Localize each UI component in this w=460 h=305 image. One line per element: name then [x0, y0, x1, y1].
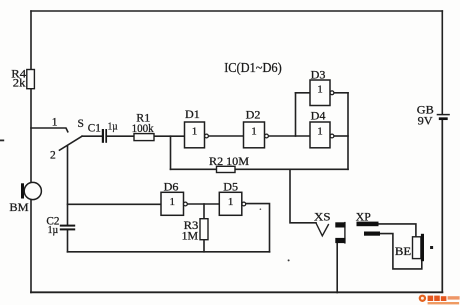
- sound dot by BE: [430, 246, 433, 249]
- wire output drop to XS: [290, 169, 316, 223]
- scan speck left of drop: [260, 208, 262, 210]
- wire node 31,128 to switch contact 1: [31, 128, 68, 132]
- svg-text:D3: D3: [311, 70, 326, 82]
- wire right rail upper (to battery): [441, 11, 443, 114]
- wire XP tip prong to BE top: [379, 224, 416, 237]
- inverter D6: [161, 182, 187, 216]
- svg-text:D5: D5: [223, 182, 238, 194]
- svg-text:1M: 1M: [182, 230, 199, 242]
- wire C1 to R1: [107, 135, 134, 137]
- svg-text:IC(D1~D6): IC(D1~D6): [224, 61, 282, 76]
- inverter D4: [310, 111, 334, 148]
- wire stub to D3 input: [296, 92, 311, 94]
- watermark light text: [428, 296, 460, 304]
- switch S arm: [60, 136, 83, 150]
- wire D2 output to D4 input: [268, 135, 310, 137]
- wire R1 to D1 input: [154, 135, 185, 137]
- XS socket right side: [344, 223, 346, 243]
- svg-text:1: 1: [251, 126, 257, 138]
- svg-text:D1: D1: [185, 109, 200, 121]
- svg-text:R2 10M: R2 10M: [209, 156, 249, 168]
- svg-text:1: 1: [192, 126, 198, 138]
- svg-text:C1: C1: [88, 123, 101, 135]
- wire D6 output to D5 input: [187, 203, 219, 205]
- wire XS sleeve to bottom rail: [336, 243, 338, 292]
- switch S labels: [50, 116, 84, 161]
- wire switch contact 2 / C2 lower: [67, 231, 69, 252]
- inverter D5: [219, 182, 245, 216]
- svg-text:D2: D2: [246, 109, 261, 121]
- battery GB: [417, 102, 450, 127]
- wire top supply rail: [31, 10, 442, 12]
- inverter D3: [310, 70, 334, 106]
- svg-text:1: 1: [317, 126, 323, 138]
- wire switch contact 2 vertical upper: [67, 146, 69, 224]
- resistor R4: [11, 69, 34, 90]
- socket XS: [314, 211, 346, 243]
- svg-text:1: 1: [52, 116, 58, 128]
- svg-text:2k: 2k: [13, 78, 26, 90]
- inverter D2: [244, 109, 269, 147]
- svg-text:D4: D4: [311, 111, 326, 123]
- wire left rail (battery+ to R4/BM): [30, 11, 32, 293]
- resistor R2: [209, 156, 249, 172]
- microphone BM: [9, 182, 41, 213]
- wire junction vertical to D3 input: [295, 93, 297, 136]
- wire right rail lower (battery to bottom): [441, 119, 443, 292]
- svg-text:BM: BM: [9, 200, 29, 214]
- wire D3 output: [334, 92, 348, 94]
- svg-text:9V: 9V: [418, 113, 433, 127]
- wire bottom rail: [31, 291, 442, 293]
- wire output vertical D3/D4 to feedback rail: [347, 93, 349, 170]
- wire D6 output node to R3: [203, 204, 205, 219]
- svg-text:BE: BE: [395, 244, 411, 258]
- inverter D1: [185, 109, 209, 148]
- wire oscillator bottom rail (D5 out / R3 / C2): [68, 251, 270, 253]
- capacitor C2: [46, 216, 75, 236]
- svg-text:XP: XP: [356, 212, 371, 224]
- svg-text:1µ: 1µ: [108, 120, 118, 132]
- svg-text:1: 1: [317, 84, 323, 96]
- capacitor C1: [88, 120, 118, 143]
- svg-text:1: 1: [228, 196, 234, 208]
- scan speck near rail: [288, 259, 290, 261]
- wire D1 output to D2 input: [208, 135, 243, 137]
- svg-text:S: S: [78, 118, 84, 130]
- wire R3 bottom: [203, 240, 205, 252]
- wire switch pole to C1: [82, 135, 102, 137]
- svg-text:100k: 100k: [132, 123, 154, 135]
- watermark logo icon: [419, 295, 426, 302]
- svg-text:2: 2: [50, 150, 56, 162]
- scan tick left edge: [0, 139, 4, 141]
- wire feedback rail R2: [171, 168, 349, 170]
- svg-text:1: 1: [170, 196, 176, 208]
- wire node A vertical (D1 input to R2): [170, 136, 172, 169]
- svg-text:1µ: 1µ: [48, 224, 59, 236]
- svg-text:D6: D6: [164, 182, 179, 194]
- watermark bold text blocks: [428, 296, 447, 301]
- XS jack V contact: [316, 223, 328, 236]
- wire D4 output: [334, 135, 348, 137]
- wire D6 input from C2 node: [68, 203, 162, 205]
- svg-text:XS: XS: [314, 211, 331, 223]
- wire XP sleeve prong to BE bottom: [380, 234, 422, 269]
- wire D5 output down: [246, 204, 270, 252]
- plug XP: [356, 212, 380, 236]
- resistor R1: [132, 112, 154, 140]
- resistor R3: [182, 219, 208, 243]
- earphone BE: [395, 234, 424, 261]
